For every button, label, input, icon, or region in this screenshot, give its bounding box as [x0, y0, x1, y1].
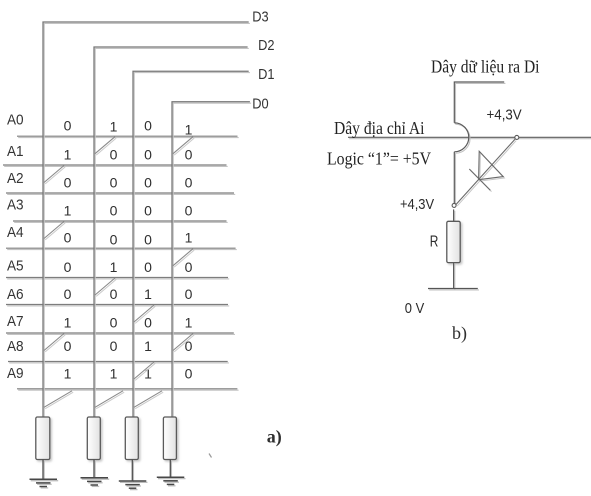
wire: D3 resistor bottom to ground	[43, 460, 44, 481]
label: +4,3V (upper, at diode cathode node)	[487, 108, 523, 124]
wire: address line A9	[17, 389, 239, 390]
svg-text:R: R	[430, 234, 439, 251]
diode slash at A0/D0 crossing	[173, 137, 194, 155]
bit value 0 at A2/D2	[110, 175, 118, 191]
bit value 0 at A6/D3	[64, 286, 72, 302]
bit value 0 at A1/D1	[144, 147, 152, 163]
caption a)	[267, 427, 282, 448]
wire: Di vertical below hop down to node	[454, 152, 455, 206]
label D1	[258, 66, 274, 83]
resistor R2 (pull-down on D2)	[87, 417, 100, 460]
svg-text:0: 0	[110, 175, 118, 191]
bit value 0 at A0/D3	[64, 118, 72, 134]
svg-text:1: 1	[144, 286, 152, 302]
svg-text:1: 1	[110, 365, 118, 381]
svg-text:D0: D0	[252, 96, 268, 113]
svg-text:0: 0	[64, 175, 72, 191]
label A0	[7, 112, 24, 129]
label: 0 V	[405, 300, 424, 317]
bit value 0 at A2/D0	[185, 175, 193, 191]
label A8	[7, 338, 24, 355]
bit value 0 at A8/D3	[64, 338, 72, 354]
diode slash at A5/D2 crossing	[95, 278, 116, 296]
label D0	[252, 96, 268, 113]
svg-text:0: 0	[110, 286, 118, 302]
bit value 0 at A5/D3	[64, 259, 72, 275]
bit value 0 at A2/D3	[64, 175, 72, 191]
svg-text:1: 1	[185, 122, 193, 138]
wire hop: Di jumps over address line Ai	[454, 123, 470, 153]
svg-text:Dây dữ liệu ra Di: Dây dữ liệu ra Di	[431, 57, 540, 77]
bit value 0 at A9/D0	[185, 365, 193, 381]
label A5	[7, 258, 24, 275]
wire: D1 resistor bottom to ground	[132, 460, 133, 483]
svg-text:0: 0	[144, 175, 152, 191]
wire: address line A1	[3, 165, 228, 166]
svg-text:0: 0	[185, 175, 193, 191]
wire: data line D1	[133, 71, 250, 418]
bit value 0 at A2/D1	[144, 175, 152, 191]
svg-text:0: 0	[110, 147, 118, 163]
svg-text:1: 1	[110, 259, 118, 275]
svg-text:A8: A8	[7, 338, 24, 355]
svg-text:1: 1	[64, 315, 72, 331]
bit value 0 at A0/D1	[144, 118, 152, 134]
svg-text:0: 0	[185, 365, 193, 381]
svg-text:0: 0	[144, 118, 152, 134]
svg-text:0: 0	[144, 232, 152, 248]
label: Day dia chi Ai (address line Ai)	[334, 118, 425, 138]
svg-text:0: 0	[64, 230, 72, 246]
svg-text:D1: D1	[258, 66, 274, 83]
ground symbol under R1	[30, 479, 59, 488]
diode slash at A3/D3 crossing	[44, 222, 65, 240]
svg-text:A7: A7	[7, 313, 24, 330]
bit value 0 at A5/D1	[144, 259, 152, 275]
bit value 0 at A3/D2	[110, 203, 118, 219]
bit value 0 at A4/D2	[110, 232, 118, 248]
label D3	[252, 9, 268, 26]
label A9	[7, 365, 24, 382]
svg-text:1: 1	[64, 203, 72, 219]
bit value 0 at A8/D0	[185, 338, 193, 354]
label: Day du lieu ra Di (data output line Di)	[431, 57, 540, 77]
svg-text:1: 1	[64, 147, 72, 163]
diode slash at A8/D1 crossing	[134, 362, 155, 380]
svg-text:0 V: 0 V	[405, 300, 424, 317]
wire: data line D0	[172, 102, 251, 419]
wire: address line A2	[6, 193, 235, 194]
bit value 0 at A3/D1	[144, 203, 152, 219]
bit value 0 at A7/D1	[144, 315, 152, 331]
bit value 1 at A0/D0	[185, 122, 193, 138]
svg-text:Dây địa chỉ Ai: Dây địa chỉ Ai	[334, 118, 425, 138]
bit value 1 at A9/D2	[110, 365, 118, 381]
ground symbol under R3	[119, 481, 148, 490]
wire: address line A6	[6, 305, 229, 306]
bit value 1 at A7/D3	[64, 315, 72, 331]
label A1	[7, 143, 24, 160]
bit value 1 at A3/D3	[64, 203, 72, 219]
bit value 0 at A4/D3	[64, 230, 72, 246]
svg-text:+4,3V: +4,3V	[400, 197, 434, 213]
svg-text:0: 0	[110, 338, 118, 354]
bit value 0 at A6/D0	[185, 286, 193, 302]
wire: data line D2	[94, 47, 249, 418]
label D2	[258, 37, 274, 54]
label R	[430, 234, 439, 251]
svg-text:1: 1	[185, 315, 193, 331]
bit value 1 at A5/D2	[110, 259, 118, 275]
diode slash at A9/D2 crossing	[95, 391, 124, 409]
svg-text:0: 0	[110, 315, 118, 331]
svg-text:A5: A5	[7, 258, 24, 275]
svg-text:0: 0	[144, 315, 152, 331]
svg-text:+4,3V: +4,3V	[487, 108, 523, 124]
wire: node down to resistor R	[454, 209, 455, 222]
svg-text:A4: A4	[7, 224, 24, 241]
svg-text:b): b)	[452, 323, 467, 344]
svg-text:D3: D3	[252, 9, 268, 26]
svg-text:0: 0	[144, 259, 152, 275]
0V rail (ground bar)	[428, 289, 479, 290]
label: +4,3V (lower, at Di node)	[400, 197, 434, 213]
svg-text:0: 0	[185, 147, 193, 163]
bit value 0 at A4/D1	[144, 232, 152, 248]
bit value 1 at A1/D3	[64, 147, 72, 163]
label A2	[7, 170, 24, 187]
wire: address line A7	[6, 333, 235, 334]
wire: data line D3	[43, 22, 250, 418]
label A3	[7, 197, 24, 214]
bit value 0 at A7/D2	[110, 315, 118, 331]
bit value 1 at A9/D1	[144, 365, 152, 381]
diode slash at A6/D1 crossing	[134, 305, 155, 323]
svg-text:0: 0	[64, 286, 72, 302]
node: diode to address line junction (open dot)	[515, 135, 519, 139]
bit value 0 at A1/D0	[185, 147, 193, 163]
stray mark	[209, 454, 212, 458]
bit value 1 at A9/D3	[64, 365, 72, 381]
diode slash at A1/D3 crossing	[44, 166, 65, 184]
svg-text:D2: D2	[258, 37, 274, 54]
wire: resistor R bottom to 0V rail	[454, 263, 455, 290]
bit value 0 at A6/D2	[110, 286, 118, 302]
svg-text:0: 0	[110, 232, 118, 248]
wire: address line Ai (horizontal)	[348, 137, 591, 138]
bit value 0 at A1/D2	[110, 147, 118, 163]
label A4	[7, 224, 24, 241]
svg-text:0: 0	[64, 118, 72, 134]
label A6	[7, 286, 24, 303]
wire: address line A8	[8, 362, 229, 363]
svg-text:0: 0	[185, 286, 193, 302]
svg-text:Logic “1”= +5V: Logic “1”= +5V	[327, 149, 431, 169]
bit value 1 at A4/D0	[185, 230, 193, 246]
diode slash at A4/D0 crossing	[173, 249, 194, 267]
diode D (between address node and Di node)	[456, 139, 516, 206]
svg-text:1: 1	[64, 365, 72, 381]
label: Logic "1" = +5V	[327, 149, 431, 169]
svg-text:0: 0	[144, 147, 152, 163]
svg-text:A0: A0	[7, 112, 24, 129]
svg-text:a): a)	[267, 427, 282, 448]
resistor R3 (pull-down on D1)	[125, 417, 138, 460]
resistor R1 (pull-down on D3)	[36, 417, 50, 460]
svg-text:1: 1	[144, 338, 152, 354]
svg-text:1: 1	[185, 230, 193, 246]
svg-text:0: 0	[64, 259, 72, 275]
svg-text:0: 0	[110, 203, 118, 219]
svg-text:0: 0	[185, 259, 193, 275]
wire: D2 resistor bottom to ground	[94, 460, 95, 480]
bit value 1 at A7/D0	[185, 315, 193, 331]
svg-text:1: 1	[110, 119, 118, 135]
bit value 0 at A8/D2	[110, 338, 118, 354]
caption b)	[452, 323, 467, 344]
wire: address line A5	[6, 278, 229, 279]
wire: address line A0	[17, 136, 239, 137]
wire: leader from label down to data line Di	[454, 82, 505, 124]
wire: address line A3	[13, 221, 228, 222]
diode slash at A0/D2 crossing	[95, 137, 116, 155]
ground symbol under R4	[157, 477, 186, 486]
bit value 0 at A3/D0	[185, 203, 193, 219]
resistor R	[447, 221, 460, 262]
diode slash at A9/D3 crossing	[44, 391, 73, 409]
wire: D0 resistor bottom to ground	[170, 460, 171, 479]
svg-text:0: 0	[185, 203, 193, 219]
svg-text:0: 0	[64, 338, 72, 354]
resistor R4 (pull-down on D0)	[163, 417, 176, 460]
svg-text:A1: A1	[7, 143, 24, 160]
diode slash at A7/D3 crossing	[44, 334, 65, 352]
ground symbol under R2	[81, 478, 110, 487]
svg-text:A6: A6	[7, 286, 24, 303]
bit value 1 at A8/D1	[144, 338, 152, 354]
diode slash at A9/D1 crossing	[134, 391, 163, 409]
svg-text:A9: A9	[7, 365, 24, 382]
svg-text:0: 0	[144, 203, 152, 219]
svg-text:A3: A3	[7, 197, 24, 214]
bit value 1 at A6/D1	[144, 286, 152, 302]
node: Di / diode anode junction (open dot)	[452, 203, 456, 207]
diode slash at A7/D0 crossing	[173, 334, 194, 352]
wire: address line A4	[6, 248, 237, 249]
svg-text:A2: A2	[7, 170, 24, 187]
label A7	[7, 313, 24, 330]
bit value 1 at A0/D2	[110, 119, 118, 135]
bit value 0 at A5/D0	[185, 259, 193, 275]
